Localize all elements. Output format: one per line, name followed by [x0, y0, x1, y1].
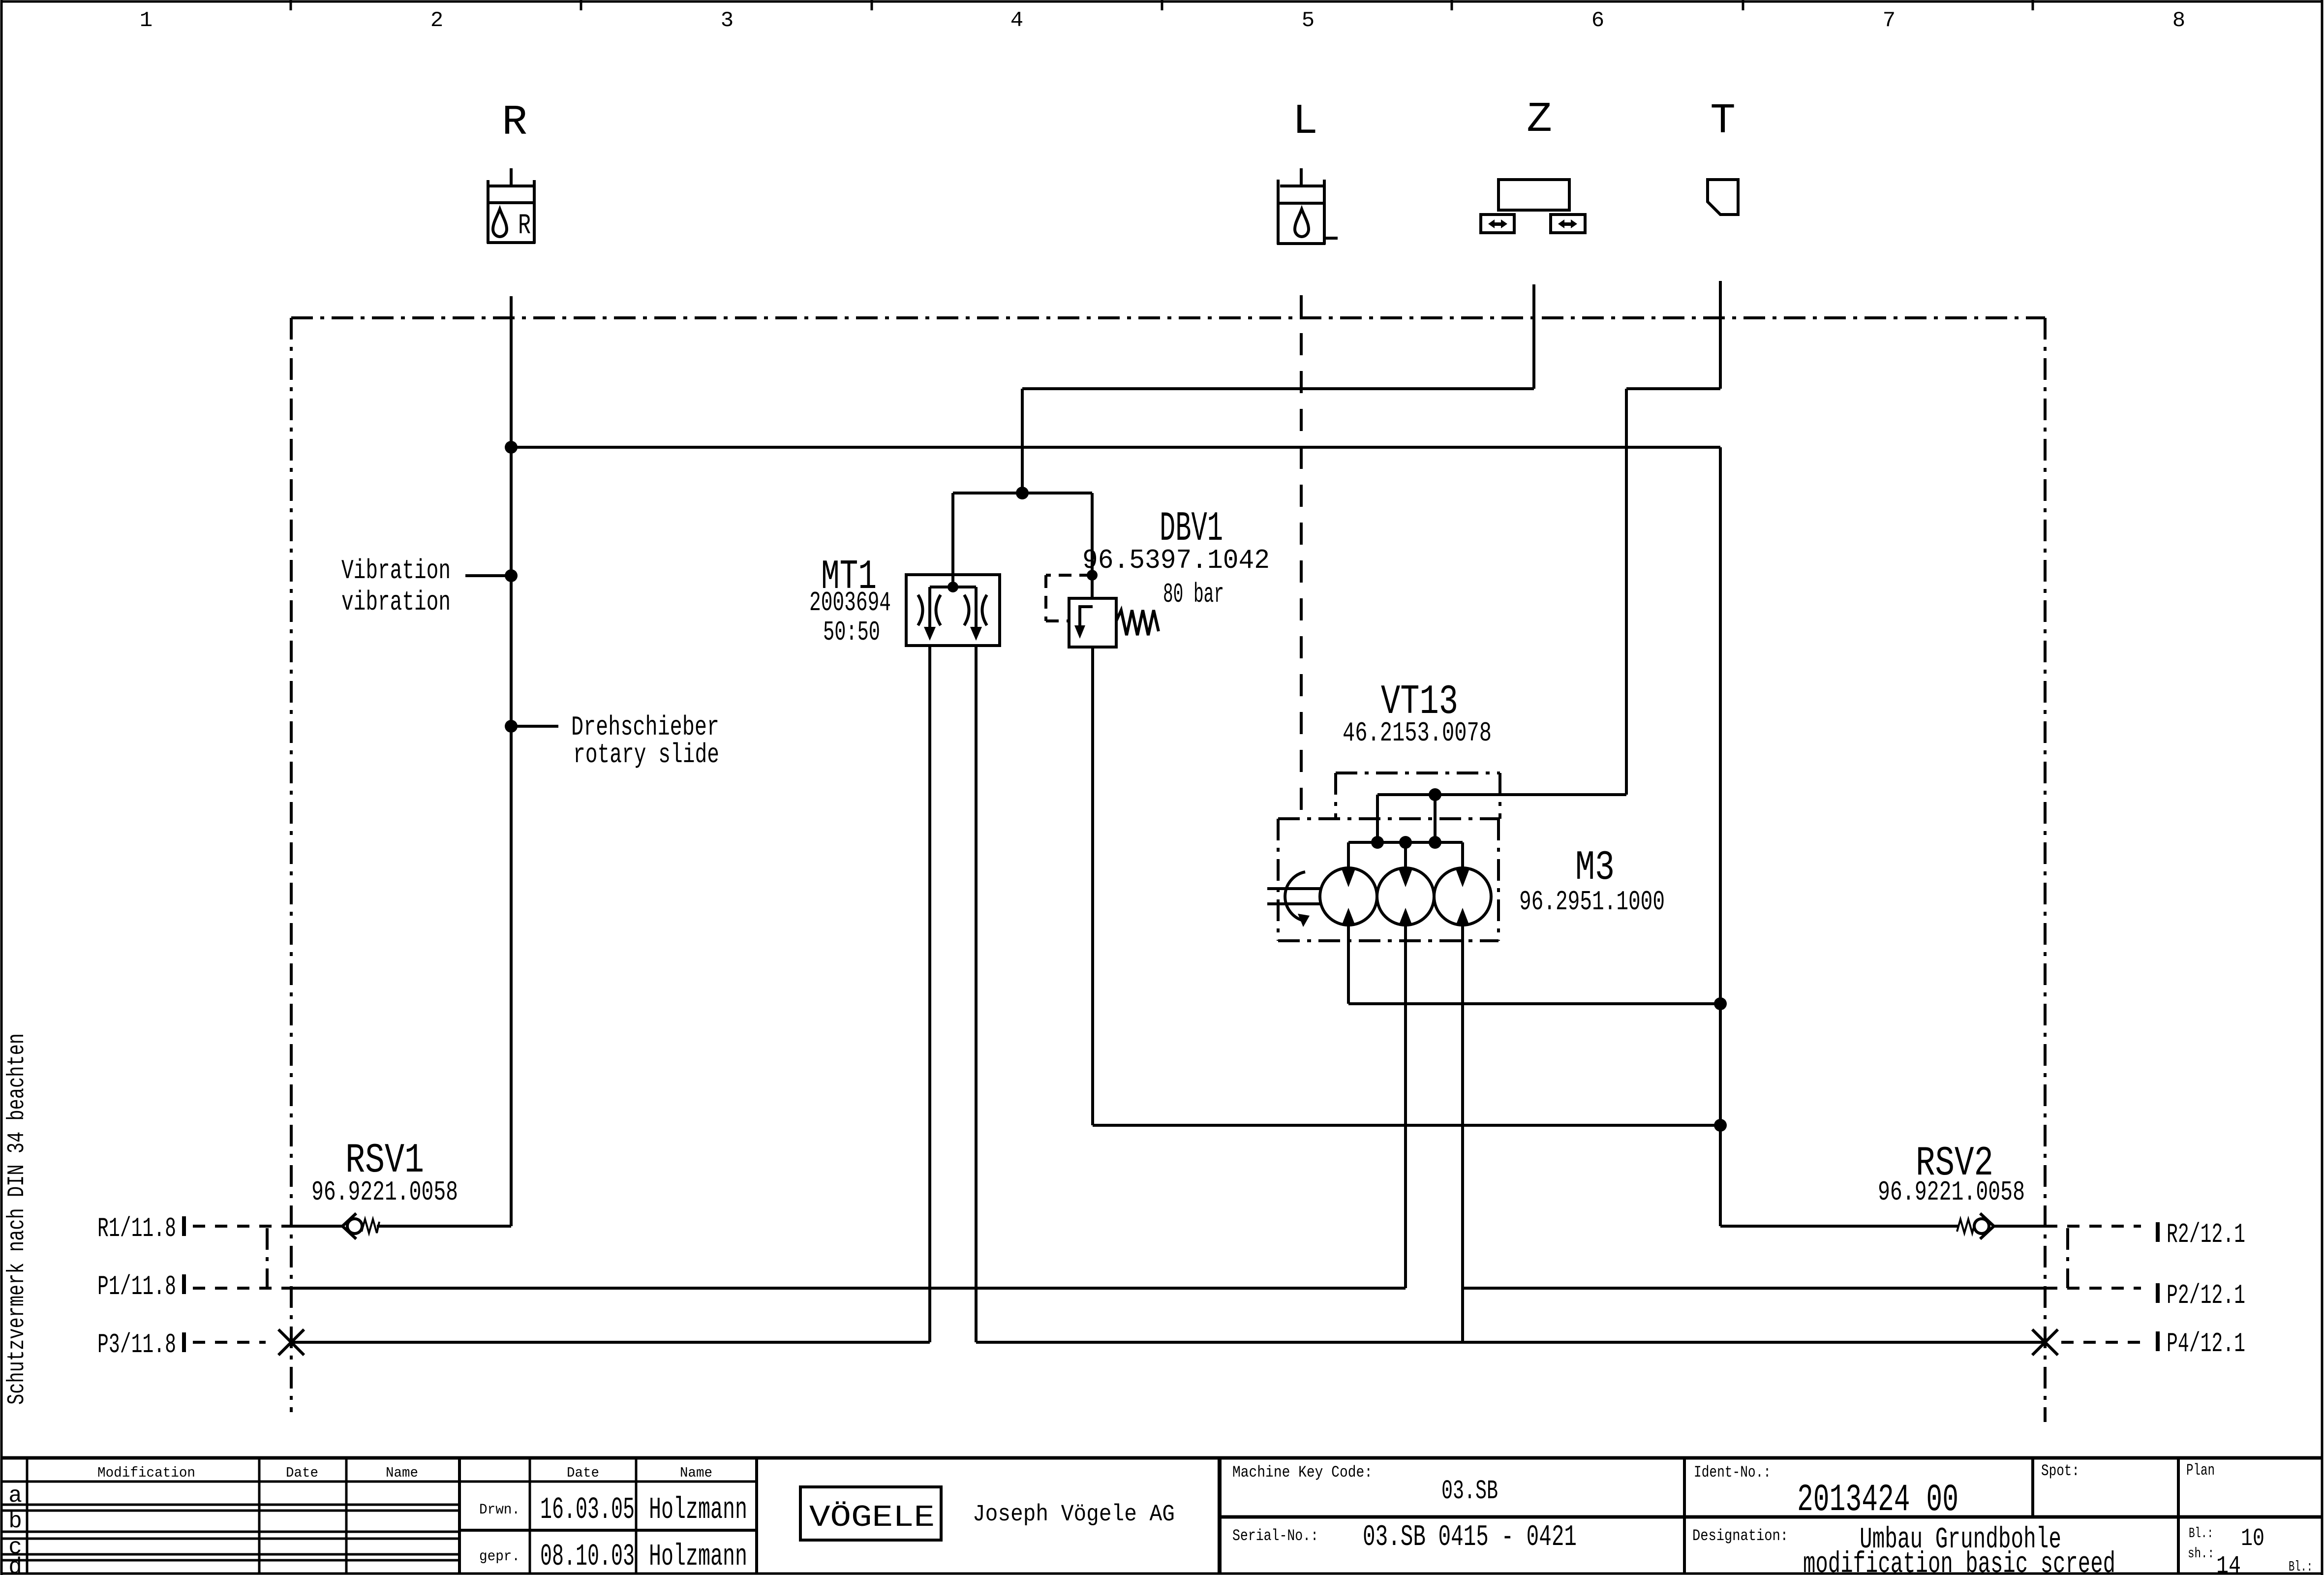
svg-text:Machine Key Code:: Machine Key Code:	[1232, 1463, 1373, 1482]
wire P2 line	[1463, 1287, 2045, 1290]
svg-text:Plan: Plan	[2186, 1461, 2215, 1480]
wire R main horizontal	[511, 446, 1720, 449]
svg-text:b: b	[8, 1509, 22, 1534]
VOGELE logo box	[800, 1487, 941, 1540]
svg-text:P2/12.1: P2/12.1	[2167, 1280, 2245, 1311]
svg-text:Drehschieber: Drehschieber	[571, 711, 719, 743]
wire motor manifold	[1348, 841, 1463, 844]
svg-text:08.10.03: 08.10.03	[540, 1539, 635, 1574]
blanking plug X left	[278, 1329, 304, 1355]
svg-text:T: T	[1710, 97, 1736, 145]
node T port label	[1710, 97, 1736, 145]
tank R	[510, 168, 513, 186]
wire P3 line	[193, 1341, 266, 1344]
relief valve DBV1	[1046, 575, 1092, 621]
svg-text:16.03.05: 16.03.05	[540, 1492, 635, 1527]
flow divider MT1	[906, 575, 1000, 646]
svg-text:2013424 00: 2013424 00	[1797, 1479, 1958, 1522]
svg-text:R: R	[502, 98, 527, 147]
svg-text:6: 6	[1591, 8, 1604, 33]
wire DBV1 output	[1091, 647, 1094, 1125]
blanking plug X right	[2032, 1329, 2058, 1355]
svg-text:03.SB 0415 - 0421: 03.SB 0415 - 0421	[1363, 1521, 1577, 1554]
wire Z down	[1532, 284, 1535, 389]
svg-text:80 bar: 80 bar	[1163, 579, 1224, 610]
wire P4 line	[976, 1341, 2045, 1344]
node Z port label	[1527, 95, 1552, 144]
svg-text:Name: Name	[680, 1465, 712, 1481]
svg-text:5: 5	[1302, 8, 1315, 33]
border frame	[0, 0, 3, 1575]
svg-text:14: 14	[2216, 1552, 2241, 1575]
svg-text:VÖGELE: VÖGELE	[809, 1500, 935, 1535]
valve block VT13 dash-dot boxes	[1278, 773, 1500, 941]
svg-text:46.2153.0078: 46.2153.0078	[1343, 717, 1492, 749]
node R port label	[502, 98, 527, 147]
node connection bars	[182, 1216, 186, 1236]
svg-text:L: L	[1292, 97, 1318, 146]
wire R2 line	[1720, 1225, 1958, 1228]
wire R right vertical	[1719, 447, 1722, 1226]
svg-text:d: d	[8, 1554, 22, 1575]
svg-text:Schutzvermerk nach DIN 34 beac: Schutzvermerk nach DIN 34 beachten	[4, 1033, 31, 1405]
wire R tank drop	[510, 296, 513, 1226]
tank L	[1300, 168, 1303, 186]
svg-text:7: 7	[1883, 8, 1896, 33]
svg-text:10: 10	[2241, 1525, 2264, 1553]
cylinder symbol Z	[1498, 180, 1569, 210]
svg-text:Modification: Modification	[97, 1465, 195, 1481]
wire P1 line	[193, 1287, 290, 1290]
svg-text:P3/11.8: P3/11.8	[97, 1329, 176, 1360]
svg-text:2003694: 2003694	[809, 587, 891, 618]
svg-text:Ident-No.:: Ident-No.:	[1694, 1463, 1771, 1482]
svg-text:1: 1	[140, 8, 153, 33]
svg-text:2: 2	[430, 8, 443, 33]
wire drehschieber label tie	[511, 725, 558, 728]
wire motor outputs	[1347, 925, 1350, 1004]
svg-text:R2/12.1: R2/12.1	[2167, 1219, 2245, 1250]
svg-text:96.2951.1000: 96.2951.1000	[1519, 886, 1665, 918]
svg-text:Spot:: Spot:	[2041, 1462, 2079, 1480]
svg-text:96.5397.1042: 96.5397.1042	[1082, 545, 1270, 576]
svg-text:3: 3	[721, 8, 734, 33]
svg-text:Holzmann: Holzmann	[649, 1492, 747, 1527]
check valve RSV2	[1980, 1213, 1994, 1239]
wire T down	[1719, 281, 1722, 389]
wire MT1 outputs	[928, 646, 931, 1342]
svg-text:Holzmann: Holzmann	[649, 1539, 747, 1574]
svg-text:8: 8	[2172, 8, 2185, 33]
svg-text:50:50: 50:50	[823, 617, 880, 648]
svg-text:sh.:: sh.:	[2188, 1545, 2214, 1562]
svg-text:96.9221.0058: 96.9221.0058	[1878, 1176, 2025, 1208]
svg-text:Vibration: Vibration	[341, 555, 451, 587]
svg-text:modification basic screed: modification basic screed	[1803, 1548, 2115, 1575]
svg-text:03.SB: 03.SB	[1441, 1476, 1498, 1507]
svg-text:vibration: vibration	[341, 587, 451, 618]
node junction dots R line	[505, 441, 1727, 1132]
svg-text:rotary slide: rotary slide	[573, 739, 719, 771]
wire vibration label tie	[465, 574, 511, 577]
title block grid	[1, 1456, 2322, 1460]
check valve RSV1	[342, 1213, 356, 1239]
rotation arrow	[1285, 872, 1305, 921]
svg-text:Date: Date	[286, 1465, 318, 1481]
svg-text:Bl.:: Bl.:	[2289, 1559, 2313, 1575]
svg-text:Z: Z	[1527, 95, 1552, 144]
svg-text:96.9221.0058: 96.9221.0058	[311, 1176, 458, 1208]
svg-text:Serial-No.:: Serial-No.:	[1232, 1527, 1318, 1545]
motor shaft	[1267, 887, 1320, 890]
node junction DBV1 pilot	[1087, 570, 1098, 581]
node junction Z split	[1016, 487, 1029, 499]
wire T feed into VT13	[1377, 793, 1626, 796]
svg-text:R: R	[518, 210, 531, 242]
wire MT1/DBV1 feed	[953, 492, 1092, 494]
node L port label	[1292, 97, 1318, 146]
svg-text:M3: M3	[1575, 845, 1615, 892]
port symbol T	[1708, 180, 1738, 215]
svg-text:P1/11.8: P1/11.8	[97, 1271, 176, 1302]
svg-text:R1/11.8: R1/11.8	[97, 1213, 176, 1244]
svg-text:Joseph Vögele AG: Joseph Vögele AG	[973, 1502, 1175, 1528]
svg-text:P4/12.1: P4/12.1	[2167, 1328, 2245, 1359]
svg-text:Drwn.: Drwn.	[479, 1502, 520, 1518]
wire R1 line	[193, 1225, 291, 1228]
svg-text:Date: Date	[567, 1465, 599, 1481]
svg-text:gepr.: gepr.	[479, 1548, 520, 1565]
svg-text:Name: Name	[386, 1465, 418, 1481]
wire L pilot dashed	[1300, 295, 1303, 819]
motor M3 circles	[1320, 868, 1377, 925]
machine boundary dash-dot box	[267, 318, 2068, 1422]
svg-text:a: a	[8, 1483, 22, 1509]
svg-text:Bl.:: Bl.:	[2189, 1525, 2213, 1542]
svg-text:4: 4	[1010, 8, 1023, 33]
svg-text:Designation:: Designation:	[1692, 1527, 1788, 1545]
